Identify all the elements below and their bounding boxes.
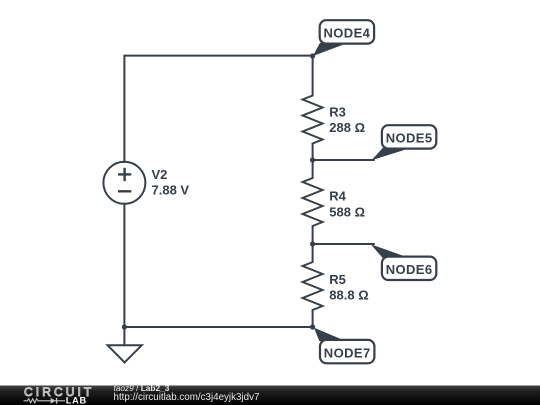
- svg-text:NODE5: NODE5: [386, 131, 433, 146]
- node NODE7 callout tail: [314, 328, 343, 342]
- resistor R4 zigzag: [303, 178, 323, 226]
- svg-text:V2: V2: [152, 167, 168, 182]
- footer logo diode glyph: [51, 398, 65, 404]
- wire: ground lead: [123, 327, 125, 345]
- node NODE4 callout tail: [313, 43, 343, 56]
- junction dot NODE5: [310, 157, 315, 162]
- ground symbol triangle: [108, 345, 142, 362]
- node NODE5 callout box: [382, 125, 436, 148]
- svg-text:http://circuitlab.com/c3j4eyjk: http://circuitlab.com/c3j4eyjk3jdv7: [114, 392, 260, 403]
- wire: NODE5 horizontal stub: [313, 159, 374, 161]
- node NODE5 callout tail: [372, 148, 406, 161]
- svg-text:288 Ω: 288 Ω: [329, 120, 365, 135]
- junction dot NODE6: [310, 241, 315, 246]
- svg-text:R4: R4: [329, 189, 346, 204]
- voltage source V2 minus sign: [118, 190, 131, 192]
- junction dot ground corner: [122, 324, 127, 329]
- svg-text:LAB: LAB: [66, 395, 87, 405]
- node NODE6 callout box: [382, 257, 436, 280]
- svg-text:88.8 Ω: 88.8 Ω: [329, 288, 368, 303]
- voltage source V2 circle: [103, 162, 145, 204]
- svg-text:NODE4: NODE4: [324, 26, 371, 41]
- svg-text:588 Ω: 588 Ω: [329, 205, 365, 220]
- wire: R4 bottom lead to NODE6 junction: [312, 226, 314, 244]
- wire: left vertical from V2 negative terminal down to bottom corner: [123, 204, 125, 327]
- footer logo resistor glyph: [24, 399, 51, 403]
- wire: right spine NODE4 junction to R3 top: [312, 56, 314, 96]
- wire: NODE5 junction to R4 top: [312, 160, 314, 178]
- svg-text:7.88 V: 7.88 V: [152, 182, 190, 197]
- resistor R3 zigzag: [303, 96, 323, 144]
- wire: R5 bottom lead to NODE7 junction: [312, 310, 314, 327]
- svg-text:NODE7: NODE7: [324, 345, 371, 360]
- node NODE6 callout tail: [371, 244, 405, 258]
- wire: R3 bottom lead to NODE5 junction: [312, 144, 314, 161]
- wire: NODE6 horizontal stub: [313, 243, 374, 245]
- wire: bottom horizontal from ground corner to NODE7 junction: [124, 326, 312, 328]
- footer bar: [0, 386, 540, 405]
- wire: NODE6 junction to R5 top: [312, 244, 314, 262]
- wire: left vertical from top corner down to V2 positive terminal: [123, 56, 125, 162]
- svg-text:R5: R5: [329, 272, 346, 287]
- svg-text:R3: R3: [329, 105, 346, 120]
- voltage source V2 plus sign: [118, 168, 131, 181]
- junction dot NODE7: [310, 324, 315, 329]
- resistor R5 zigzag: [303, 262, 323, 310]
- wire: top horizontal from V2 to NODE4 junction: [124, 55, 312, 57]
- svg-text:NODE6: NODE6: [386, 262, 433, 277]
- junction dot NODE4: [310, 53, 315, 58]
- node NODE7 callout box: [320, 340, 374, 363]
- node NODE4 callout box: [320, 20, 374, 43]
